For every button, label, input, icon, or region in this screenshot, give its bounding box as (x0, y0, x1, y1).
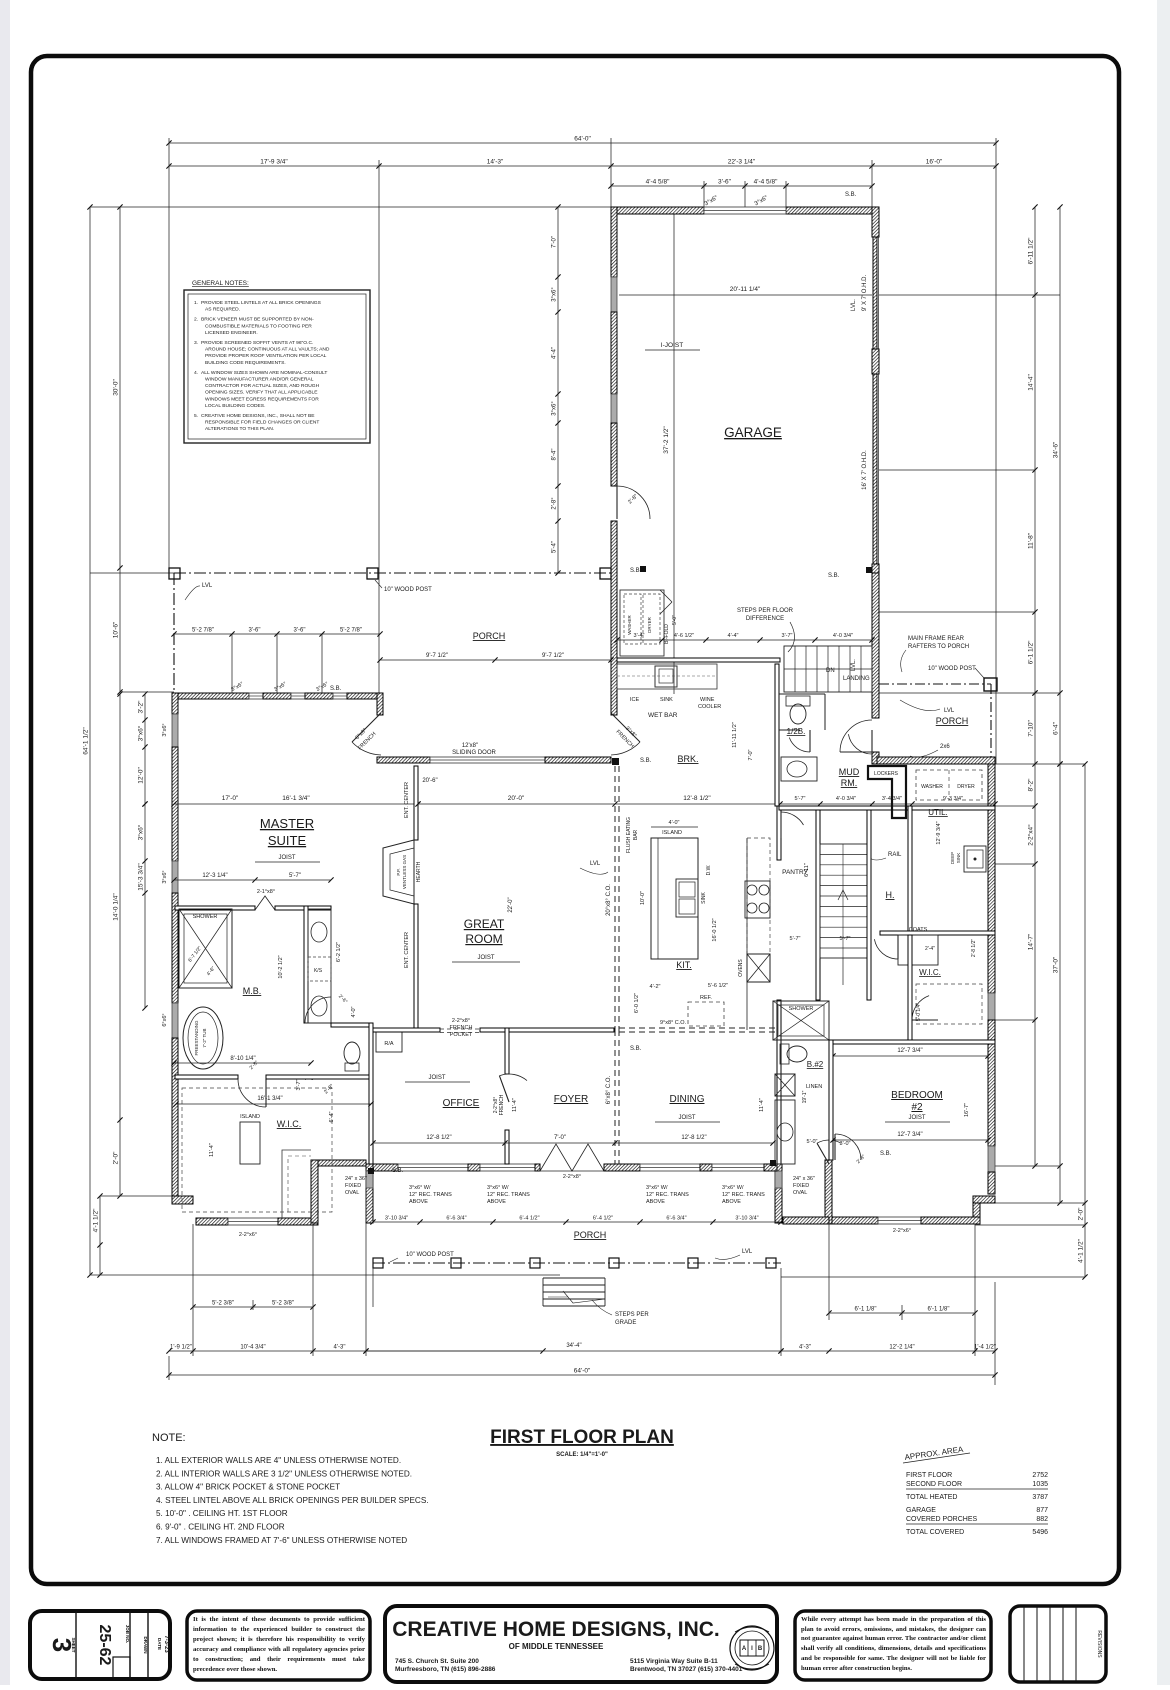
extension line garage top to left (90, 206, 611, 208)
front wall seg3 (535, 1164, 540, 1171)
svg-text:9'-7 1/2": 9'-7 1/2" (426, 653, 448, 659)
svg-text:GREAT: GREAT (464, 917, 505, 931)
svg-text:4'-0": 4'-0" (669, 820, 680, 826)
lockers (868, 766, 906, 818)
dim right low col (1078, 761, 1088, 1279)
east wall utility (988, 764, 995, 993)
svg-text:3'-10 3/4": 3'-10 3/4" (735, 1216, 758, 1222)
svg-text:4'-3": 4'-3" (334, 1345, 346, 1351)
svg-text:LOCAL BUILDING CODES.: LOCAL BUILDING CODES. (205, 403, 265, 409)
svg-text:3'-0": 3'-0" (840, 1141, 851, 1147)
pantry label (782, 869, 808, 876)
office french label (493, 1094, 505, 1115)
svg-text:S.B.: S.B. (392, 1168, 404, 1174)
fixed oval label left (345, 1176, 367, 1196)
svg-text:GARAGE: GARAGE (906, 1507, 936, 1514)
garage west wall upper (611, 207, 617, 277)
master north window2 (291, 693, 305, 699)
svg-text:RAFTERS TO PORCH: RAFTERS TO PORCH (908, 644, 969, 650)
master dims row (171, 873, 333, 883)
svg-text:K/S: K/S (314, 968, 323, 974)
fixed oval window left (366, 1171, 373, 1188)
west window 2 (172, 861, 178, 893)
porch roofline top-left (174, 573, 614, 693)
svg-text:1. ALL EXTERIOR WALLS ARE 4" U: 1. ALL EXTERIOR WALLS ARE 4" UNLESS OTHE… (156, 1456, 401, 1465)
garage LVL labels (851, 299, 857, 671)
sb label master side (330, 686, 342, 692)
master joist arrow (255, 855, 320, 862)
svg-text:2-1°x8°: 2-1°x8° (257, 889, 275, 895)
svg-text:6'-0 1/2": 6'-0 1/2" (634, 993, 640, 1013)
interior dim master (171, 795, 420, 807)
svg-text:9°x8° C.O.: 9°x8° C.O. (660, 1020, 687, 1026)
svg-text:5'-2 3/8": 5'-2 3/8" (272, 1301, 294, 1307)
svg-text:PROVIDE SCREENED SOFFIT VENTS: PROVIDE SCREENED SOFFIT VENTS AT 96"O.C. (201, 340, 313, 346)
svg-text:12" REC. TRANS: 12" REC. TRANS (646, 1192, 689, 1198)
svg-text:FIXED: FIXED (345, 1183, 361, 1189)
svg-text:4'-0 3/4": 4'-0 3/4" (833, 633, 853, 639)
interior dim line y804 (415, 795, 997, 807)
first floor plan title (490, 1427, 674, 1458)
svg-text:1.: 1. (194, 300, 198, 306)
svg-text:8'-4": 8'-4" (552, 449, 558, 461)
svg-text:12'-8 1/2": 12'-8 1/2" (681, 1135, 706, 1141)
wic right door (912, 996, 938, 1020)
svg-text:882: 882 (1036, 1516, 1048, 1523)
general notes box (184, 290, 370, 443)
mb toilet room wall (331, 1023, 373, 1027)
svg-text:64'-1 1/2": 64'-1 1/2" (83, 727, 90, 755)
master north window labels (230, 681, 330, 693)
svg-text:7. ALL WINDOWS FRAMED AT 7'-6": 7. ALL WINDOWS FRAMED AT 7'-6" UNLESS OT… (156, 1536, 407, 1545)
svg-text:4. STEEL LINTEL ABOVE ALL BRIC: 4. STEEL LINTEL ABOVE ALL BRICK OPENINGS… (156, 1496, 429, 1505)
svg-text:SLIDING DOOR: SLIDING DOOR (452, 750, 496, 756)
svg-text:12" REC. TRANS: 12" REC. TRANS (487, 1192, 530, 1198)
front window 3 (640, 1164, 700, 1171)
washer dryer bifold closet (620, 590, 678, 656)
svg-text:12'-8 1/2": 12'-8 1/2" (426, 1135, 451, 1141)
rear porch post (984, 678, 997, 691)
svg-text:PROVIDE PROPER ROOF VENTILATIO: PROVIDE PROPER ROOF VENTILATION PER LOCA… (205, 353, 327, 359)
dim left overall (83, 204, 93, 1277)
west wall window labels (162, 723, 168, 1026)
svg-text:20'-6": 20'-6" (422, 778, 437, 784)
svg-text:6'-1 1/8": 6'-1 1/8" (928, 1307, 950, 1313)
svg-text:CREATIVE HOME DESIGNS, INC., S: CREATIVE HOME DESIGNS, INC., SHALL NOT B… (201, 413, 315, 419)
office pocket opening (440, 1029, 480, 1033)
garage west wall dims (552, 204, 561, 575)
svg-text:STEPS PER: STEPS PER (615, 1312, 649, 1318)
approx area table (903, 1445, 1048, 1536)
svg-text:JOIST: JOIST (428, 1075, 445, 1081)
svg-text:2-2°x6°: 2-2°x6° (239, 1232, 257, 1238)
svg-text:FOYER: FOYER (554, 1094, 588, 1105)
master north wall seg1 (172, 693, 249, 699)
wic shelving dashed (182, 1088, 332, 1218)
wic bay windows (228, 1218, 278, 1225)
svg-text:2.: 2. (194, 317, 198, 323)
svg-text:12" REC. TRANS: 12" REC. TRANS (722, 1192, 765, 1198)
great room west wall2 (414, 904, 418, 1030)
hall east wall (908, 935, 912, 1040)
svg-text:M.B.: M.B. (243, 986, 262, 996)
svg-text:12'-7 3/4": 12'-7 3/4" (897, 1132, 922, 1138)
svg-text:REF.: REF. (700, 995, 712, 1001)
front window 1 (398, 1164, 468, 1171)
svg-text:COVERED PORCHES: COVERED PORCHES (906, 1516, 978, 1523)
wic bay connect wall (318, 1160, 366, 1166)
aibd logo (730, 1626, 774, 1670)
wet bar labels (630, 697, 721, 719)
wic bay east wall (311, 1160, 318, 1223)
shower bath2 (773, 1001, 829, 1040)
kitchen island dims (640, 820, 718, 942)
svg-text:64'-0": 64'-0" (574, 1368, 591, 1375)
svg-text:3°x6°: 3°x6° (552, 287, 558, 302)
master closet double door (255, 889, 275, 910)
svg-text:9'-3 3/4": 9'-3 3/4" (943, 796, 963, 802)
svg-text:JOIST: JOIST (477, 955, 494, 961)
bottom overall 64 (166, 1368, 997, 1378)
garage east wall bottom (872, 564, 879, 573)
svg-text:FREESTANDING: FREESTANDING (194, 1020, 199, 1055)
ovens box (747, 954, 770, 982)
svg-text:8'-2": 8'-2" (1028, 778, 1035, 792)
bedroom2 north wall (829, 1040, 995, 1044)
hall west wall lower (777, 1000, 781, 1164)
steps per grade note (592, 1300, 649, 1326)
master french corner door (352, 713, 381, 755)
wetbar north wall (617, 658, 780, 662)
dim top row2 (166, 159, 998, 169)
sliding wall east seg (545, 757, 611, 763)
ovens label (738, 959, 744, 977)
bedroom bay south wall right (921, 1217, 980, 1224)
porch side wall right (775, 1164, 782, 1223)
svg-text:BUILDING CODE REQUIREMENTS.: BUILDING CODE REQUIREMENTS. (205, 360, 286, 366)
general notes text (194, 300, 330, 432)
svg-text:D.W.: D.W. (706, 865, 712, 876)
svg-text:11'-11 1/2": 11'-11 1/2" (732, 722, 738, 747)
svg-text:SHOWER: SHOWER (193, 914, 218, 920)
foyer dims (505, 1135, 618, 1146)
hall dims (790, 863, 851, 942)
master suite label1 (260, 816, 314, 831)
svg-text:3'-6": 3'-6" (294, 628, 306, 634)
svg-text:FRENCH: FRENCH (450, 1025, 473, 1031)
main frame rafters note (901, 636, 969, 672)
ent center labels (404, 782, 410, 968)
garage west window 1 (611, 277, 617, 312)
rear porch roof line (879, 684, 991, 758)
master ne corner wall (377, 693, 383, 715)
svg-text:6'-4": 6'-4" (329, 1111, 335, 1122)
toilet master (344, 1042, 360, 1071)
svg-text:LOCKERS: LOCKERS (874, 771, 899, 777)
svg-text:17'-0": 17'-0" (222, 795, 239, 802)
svg-text:MASTER: MASTER (260, 816, 314, 831)
svg-text:12'-0": 12'-0" (138, 767, 145, 784)
svg-text:WINDOW MANUFACTURER AND/OR GEN: WINDOW MANUFACTURER AND/OR GENERAL (205, 377, 314, 383)
svg-text:4'-0 3/4": 4'-0 3/4" (836, 796, 856, 802)
wic right label (919, 968, 941, 977)
svg-text:PORCH: PORCH (574, 1230, 607, 1240)
svg-text:5'-7": 5'-7" (795, 796, 806, 802)
master suite label2 (268, 833, 307, 848)
svg-text:4'-4 5/8": 4'-4 5/8" (646, 179, 670, 186)
util label (928, 808, 948, 817)
svg-text:DIFFERENCE: DIFFERENCE (746, 616, 784, 622)
svg-text:MAIN FRAME REAR: MAIN FRAME REAR (908, 636, 965, 642)
hall label (886, 890, 895, 900)
svg-text:FIRST FLOOR: FIRST FLOOR (906, 1472, 952, 1479)
svg-text:2'-0": 2'-0" (113, 1151, 120, 1165)
svg-text:7'-10": 7'-10" (1028, 720, 1035, 737)
mud rm label1 (839, 767, 860, 777)
svg-text:S.B.: S.B. (630, 568, 642, 574)
svg-text:10'-2 1/2": 10'-2 1/2" (278, 955, 284, 978)
extension lines top (169, 138, 996, 764)
svg-text:HEARTH: HEARTH (416, 861, 422, 882)
svg-text:6'-11": 6'-11" (804, 863, 810, 877)
dining label (670, 1094, 705, 1105)
svg-text:5.: 5. (194, 413, 198, 419)
wic low dims (239, 1232, 257, 1238)
svg-text:6°x6°: 6°x6° (162, 1013, 168, 1026)
svg-text:7-3-23: 7-3-23 (163, 1635, 169, 1653)
title block disclaimer left (187, 1611, 370, 1680)
bedroom2 label1 (891, 1090, 943, 1101)
svg-text:6'-2 1/2": 6'-2 1/2" (336, 942, 342, 962)
wic left label (277, 1119, 302, 1129)
bedroom2 dim top (830, 1048, 990, 1059)
svg-text:2-2°x8°: 2-2°x8° (563, 1174, 581, 1180)
dim right col 34-6 (1053, 204, 1063, 766)
svg-text:14'-4": 14'-4" (1028, 374, 1035, 391)
svg-text:877: 877 (1036, 1507, 1048, 1514)
title block company box (385, 1606, 777, 1682)
svg-text:16'-1 3/4": 16'-1 3/4" (257, 1096, 282, 1102)
svg-text:5'-2 3/8": 5'-2 3/8" (212, 1301, 234, 1307)
wic door arc (238, 1060, 266, 1107)
svg-text:S.B.: S.B. (845, 192, 857, 198)
svg-text:19'-1": 19'-1" (802, 1090, 808, 1103)
svg-text:7'-0": 7'-0" (554, 1135, 566, 1141)
bedroom bay windows (878, 1217, 921, 1224)
svg-text:4'-4": 4'-4" (552, 347, 558, 359)
corner post SB (612, 758, 652, 765)
dining joist (655, 1115, 720, 1122)
wic right north wall (880, 931, 995, 935)
svg-text:24" x 36": 24" x 36" (345, 1176, 367, 1182)
svg-text:LANDING: LANDING (843, 676, 870, 682)
brk label (677, 754, 698, 764)
svg-text:3°x6° W/: 3°x6° W/ (722, 1185, 744, 1191)
porch LVL note (185, 583, 213, 600)
porch bottom dims (370, 1216, 783, 1225)
half bath walls (779, 694, 825, 730)
bedroom bay east wall (973, 1203, 980, 1218)
svg-text:1'-4 1/2": 1'-4 1/2" (974, 1345, 996, 1351)
great room dims (422, 778, 514, 913)
kitchen dims (634, 983, 728, 1013)
stairs arrow (838, 890, 848, 985)
svg-text:4'-3": 4'-3" (799, 1345, 811, 1351)
svg-text:2-2°x8°: 2-2°x8° (452, 1018, 470, 1024)
svg-text:ICE: ICE (630, 697, 640, 703)
garage door 16x7 OHD (862, 374, 879, 564)
bedroom2 label2 (911, 1102, 923, 1113)
sliding wall west seg (377, 757, 430, 763)
svg-text:3°x6°: 3°x6° (137, 725, 145, 741)
svg-text:4.: 4. (194, 370, 198, 376)
general notes title (192, 280, 249, 287)
svg-text:5'-7": 5'-7" (790, 936, 801, 942)
wood post note rear (928, 666, 984, 678)
svg-text:5496: 5496 (1032, 1529, 1048, 1536)
half bath toilet (786, 696, 810, 724)
mudroom south wall (779, 806, 995, 810)
scan edge strip left (0, 0, 10, 1685)
garage west wall mid (611, 312, 617, 394)
svg-text:6'-1 1/2": 6'-1 1/2" (1028, 640, 1035, 664)
master south wall (175, 906, 255, 910)
svg-text:#2: #2 (911, 1102, 923, 1113)
coats closet (898, 927, 938, 965)
office north wall2 (480, 1028, 614, 1032)
svg-text:3787: 3787 (1032, 1494, 1048, 1501)
svg-text:REVISIONS: REVISIONS (1096, 1630, 1102, 1658)
svg-text:SCALE: 1/4"=1'-0": SCALE: 1/4"=1'-0" (556, 1452, 608, 1458)
svg-text:S.B.: S.B. (630, 1046, 642, 1052)
front porch bottom label (574, 1230, 607, 1240)
bedroom2 west wall (829, 1040, 833, 1160)
range cooktop (745, 881, 770, 918)
svg-text:VENTLESS GAS: VENTLESS GAS (402, 855, 407, 889)
svg-text:ABOVE: ABOVE (409, 1199, 428, 1205)
svg-text:LVL: LVL (590, 861, 601, 867)
svg-text:LVL: LVL (202, 583, 213, 589)
master north window1 (249, 693, 263, 699)
wood post note (375, 580, 432, 593)
svg-text:KIT.: KIT. (676, 960, 692, 970)
front porch label top (473, 631, 506, 641)
svg-text:10" WOOD POST: 10" WOOD POST (384, 587, 432, 593)
svg-text:SINK: SINK (660, 697, 673, 703)
svg-text:NOTE:: NOTE: (152, 1432, 186, 1444)
svg-text:25-62: 25-62 (96, 1625, 113, 1666)
garage vertical dim (663, 426, 670, 454)
garage SB corner labels (630, 192, 872, 579)
bottom dims right (826, 1307, 977, 1316)
svg-text:6'-4 1/2": 6'-4 1/2" (593, 1216, 613, 1222)
mb dim 8-10 (171, 1056, 313, 1066)
half bath label (787, 727, 806, 736)
svg-text:B: B (758, 1646, 763, 1652)
svg-text:OVAL: OVAL (793, 1190, 807, 1196)
svg-text:6'-4": 6'-4" (1053, 721, 1060, 735)
svg-text:DN: DN (826, 668, 835, 674)
svg-text:5'-0": 5'-0" (807, 1139, 818, 1145)
scan edge strip right (1157, 0, 1170, 1685)
brk french corner door (611, 713, 640, 755)
transom labels under front wall (409, 1185, 452, 1205)
bedroom2 bay dims (893, 1103, 970, 1234)
garage window labels (704, 195, 770, 208)
svg-text:34'-6": 34'-6" (1053, 441, 1060, 458)
master north window3 (333, 693, 347, 699)
svg-text:3°x6°: 3°x6° (162, 870, 168, 883)
svg-text:9'-7 1/2": 9'-7 1/2" (542, 653, 564, 659)
svg-text:12'-3 1/4": 12'-3 1/4" (202, 873, 227, 879)
svg-text:B.#2: B.#2 (807, 1060, 824, 1069)
svg-text:5'-7": 5'-7" (289, 873, 301, 879)
svg-text:W.I.C.: W.I.C. (919, 968, 941, 977)
linen label (806, 1084, 822, 1090)
svg-text:6'-4 1/2": 6'-4 1/2" (519, 1216, 539, 1222)
sb labels front (368, 1046, 892, 1174)
lvl note bottom (715, 1249, 753, 1259)
mb wic divider wall (175, 1075, 238, 1079)
svg-text:8'-10 1/4": 8'-10 1/4" (230, 1056, 255, 1062)
foyer label (554, 1094, 588, 1105)
svg-text:RESPONSIBLE FOR FIELD CHANGES: RESPONSIBLE FOR FIELD CHANGES OR CLIENT (205, 420, 319, 426)
garage side door (617, 486, 650, 519)
svg-text:2-2°x6°: 2-2°x6° (893, 1228, 911, 1234)
bath2 dims (802, 1090, 818, 1145)
svg-text:LINEN: LINEN (806, 1084, 822, 1090)
porch posts bottom (373, 1258, 383, 1268)
left extension lines (90, 573, 560, 1275)
front wall seg6 (764, 1164, 777, 1171)
svg-text:DEEP: DEEP (950, 852, 955, 864)
brk french label (614, 725, 637, 749)
svg-text:20'-0": 20'-0" (508, 795, 525, 802)
svg-text:3°x6° W/: 3°x6° W/ (487, 1185, 509, 1191)
svg-text:22'-0": 22'-0" (508, 897, 514, 912)
svg-text:ALTERATIONS TO THIS PLAN.: ALTERATIONS TO THIS PLAN. (205, 426, 274, 432)
svg-text:A: A (742, 1646, 747, 1652)
svg-text:5'-0": 5'-0" (672, 615, 678, 625)
master north wall seg2 (263, 693, 291, 699)
rear porch south wall 2x6 (877, 757, 995, 764)
svg-text:3'-4": 3'-4" (634, 633, 645, 639)
mud door (848, 730, 872, 754)
kitchenette dim row (614, 633, 874, 643)
bedroom2 door dims (840, 1141, 867, 1165)
svg-text:PROVIDE STEEL LINTELS AT ALL B: PROVIDE STEEL LINTELS AT ALL BRICK OPENI… (201, 300, 322, 306)
front wall seg2 (468, 1164, 480, 1171)
svg-text:30'-0": 30'-0" (113, 379, 120, 396)
mud rm label2 (841, 778, 858, 788)
wic island (240, 1122, 260, 1164)
svg-text:MUD: MUD (839, 767, 860, 777)
svg-text:OVAL: OVAL (345, 1190, 359, 1196)
svg-text:12'-8 1/2": 12'-8 1/2" (683, 795, 711, 802)
mud porch french door (840, 720, 872, 752)
great room joist arrow (452, 955, 520, 962)
svg-text:AROUND HOUSE; CONTINUOUS AT AL: AROUND HOUSE; CONTINUOUS AT ALL VAULTS; … (205, 347, 330, 353)
svg-text:2x6: 2x6 (940, 744, 950, 750)
svg-text:20'-11 1/4": 20'-11 1/4" (730, 286, 761, 293)
svg-text:2752: 2752 (1032, 1472, 1048, 1479)
svg-text:11'-4": 11'-4" (512, 1098, 518, 1112)
stairs main (820, 844, 867, 958)
garage joist note (645, 342, 700, 350)
front window 2 (480, 1164, 535, 1171)
svg-text:H.: H. (886, 890, 895, 900)
util dims (936, 821, 942, 844)
